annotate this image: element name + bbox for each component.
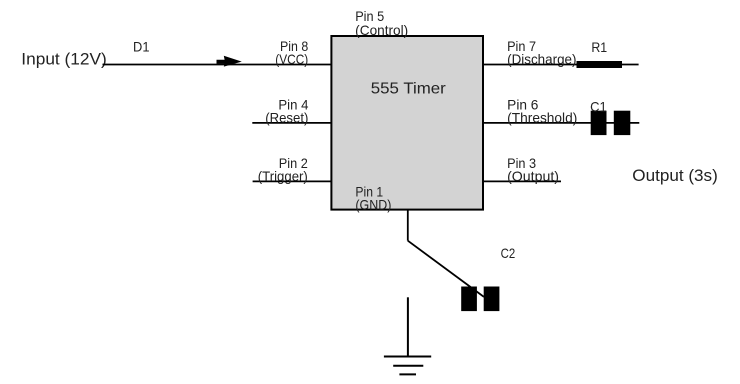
wire diagonal to C2: [408, 241, 484, 297]
svg-text:D1: D1: [133, 39, 150, 54]
ground bar 3: [399, 373, 416, 375]
capacitor C2: [461, 287, 477, 312]
svg-text:C1: C1: [590, 99, 607, 114]
wire pin 2: [253, 180, 332, 182]
svg-text:Output (3s): Output (3s): [632, 167, 718, 185]
svg-text:C2: C2: [501, 246, 516, 261]
svg-text:(Output): (Output): [507, 169, 559, 184]
op-amp U1 555 Timer box: [331, 36, 483, 210]
svg-text:(Trigger): (Trigger): [258, 169, 308, 184]
diode D1 arrow: [217, 56, 242, 67]
wire pin 4: [252, 122, 331, 124]
wire pin 1 vertical: [407, 209, 409, 241]
svg-text:Pin 5: Pin 5: [355, 9, 384, 24]
ground bar 2: [393, 365, 423, 367]
svg-text:(Control): (Control): [355, 23, 408, 38]
wire pin 6 to C1: [483, 122, 640, 124]
svg-text:Input (12V): Input (12V): [21, 51, 107, 69]
svg-text:(Discharge): (Discharge): [507, 52, 576, 67]
svg-text:R1: R1: [591, 40, 607, 55]
resistor R1: [577, 61, 623, 68]
wire pin 7 to R1: [483, 64, 639, 66]
svg-text:(Threshold): (Threshold): [507, 110, 577, 125]
svg-text:(Reset): (Reset): [265, 110, 308, 125]
wire pin 3 output: [483, 180, 562, 182]
ground stem: [407, 297, 409, 356]
ground bar 1: [384, 356, 431, 358]
svg-text:(GND): (GND): [355, 198, 391, 213]
wire input to Pin 8: [103, 64, 332, 66]
capacitor C1: [591, 111, 607, 135]
svg-text:555 Timer: 555 Timer: [371, 81, 446, 98]
svg-text:(VCC): (VCC): [275, 52, 308, 67]
